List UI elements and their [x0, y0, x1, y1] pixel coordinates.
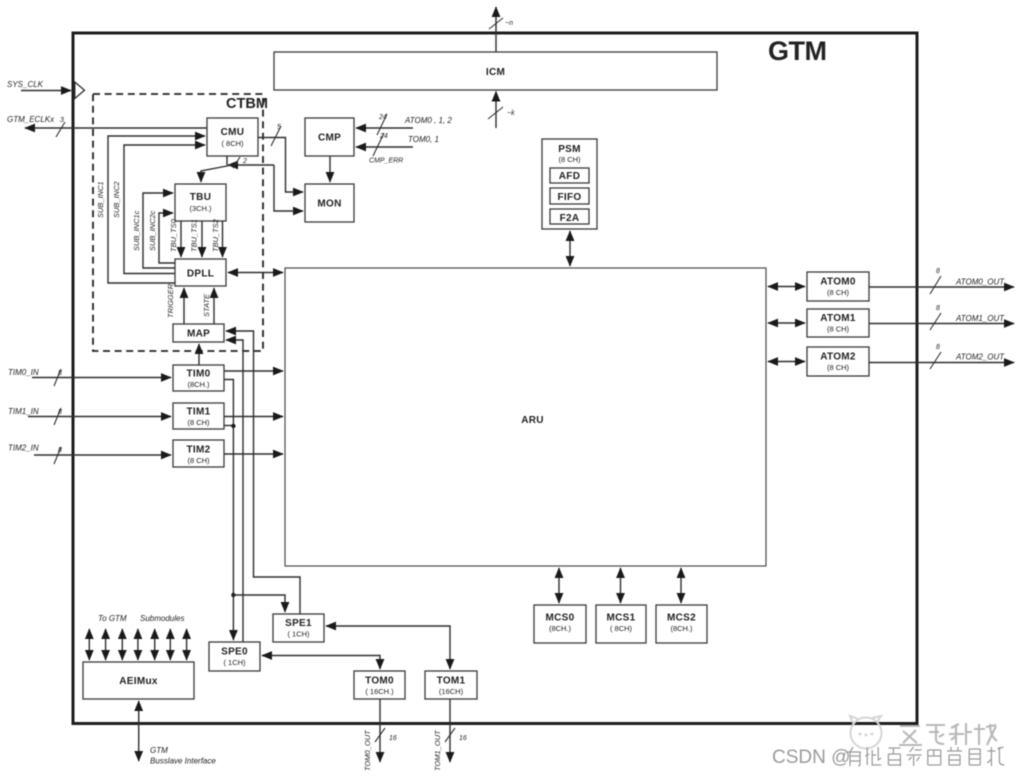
svg-text:(16CH): (16CH): [439, 687, 464, 696]
svg-text:8: 8: [936, 268, 940, 275]
svg-text:SUB_INC1c: SUB_INC1c: [132, 210, 141, 251]
svg-text:MON: MON: [317, 199, 341, 210]
svg-text:SUB_INC2: SUB_INC2: [112, 180, 121, 218]
svg-text:TIM1_IN: TIM1_IN: [8, 407, 39, 416]
svg-text:16: 16: [459, 735, 467, 742]
svg-text:(3CH.): (3CH.): [189, 204, 212, 213]
svg-text:TIM2_IN: TIM2_IN: [8, 444, 39, 453]
svg-text:SYS_CLK: SYS_CLK: [7, 80, 44, 89]
svg-text:ATOM2: ATOM2: [820, 352, 856, 363]
svg-text:ATOM0_OUT: ATOM0_OUT: [955, 278, 1005, 287]
svg-text:ICM: ICM: [486, 67, 505, 78]
svg-text:CTBM: CTBM: [226, 96, 268, 112]
svg-text:( 8CH): ( 8CH): [221, 139, 244, 148]
svg-text:MCS2: MCS2: [667, 613, 696, 624]
svg-text:ATOM0 , 1, 2: ATOM0 , 1, 2: [404, 116, 452, 125]
svg-text:F2A: F2A: [560, 213, 580, 224]
svg-text:FIFO: FIFO: [558, 192, 582, 203]
svg-text:GTM: GTM: [768, 36, 827, 66]
svg-text:TIM1: TIM1: [187, 407, 211, 418]
svg-text:( 16CH.): ( 16CH.): [365, 687, 394, 696]
svg-text:CSDN @: CSDN @: [772, 747, 850, 768]
svg-text:2: 2: [242, 158, 247, 165]
svg-text:8: 8: [58, 370, 62, 377]
svg-text:MCS0: MCS0: [546, 613, 575, 624]
svg-text:CMP_ERR: CMP_ERR: [369, 158, 403, 165]
svg-text:Busslave Interface: Busslave Interface: [150, 757, 216, 766]
svg-text:GTM: GTM: [150, 746, 168, 755]
svg-text:(8 CH): (8 CH): [187, 418, 210, 427]
svg-text:(8 CH): (8 CH): [558, 155, 581, 164]
svg-text:STATE: STATE: [202, 293, 211, 317]
svg-text:MCS1: MCS1: [607, 613, 636, 624]
svg-text:TOM0, 1: TOM0, 1: [408, 135, 439, 144]
svg-text:DPLL: DPLL: [187, 269, 214, 280]
svg-text:TIM0_IN: TIM0_IN: [8, 368, 39, 377]
svg-text:ATOM0: ATOM0: [820, 277, 856, 288]
svg-text:8: 8: [936, 344, 940, 351]
svg-text:SUB_INC2c: SUB_INC2c: [148, 210, 157, 251]
svg-text:~k: ~k: [507, 110, 515, 117]
svg-text:16: 16: [389, 735, 397, 742]
svg-text:To GTM: To GTM: [98, 614, 127, 623]
svg-text:(8CH.): (8CH.): [670, 624, 693, 633]
svg-text:TOM1: TOM1: [437, 676, 466, 687]
svg-text:CMU: CMU: [221, 127, 245, 138]
svg-text:TBU: TBU: [190, 192, 211, 203]
svg-text:TBU_TS1: TBU_TS1: [190, 219, 199, 252]
svg-text:( 8CH): ( 8CH): [610, 624, 633, 633]
svg-text:AEIMux: AEIMux: [119, 676, 158, 687]
svg-text:AFD: AFD: [559, 171, 580, 182]
svg-text:TIM2: TIM2: [187, 445, 211, 456]
svg-text:(8 CH): (8 CH): [827, 363, 850, 372]
svg-text:SPE1: SPE1: [285, 618, 312, 629]
svg-text:TOM0_OUT: TOM0_OUT: [363, 729, 372, 771]
svg-text:8: 8: [58, 409, 62, 416]
svg-text:TRIGGER: TRIGGER: [166, 283, 175, 318]
svg-text:ATOM1: ATOM1: [820, 313, 856, 324]
svg-text:Submodules: Submodules: [140, 614, 184, 623]
svg-text:TBU_TS2: TBU_TS2: [211, 218, 220, 252]
svg-text:SUB_INC1: SUB_INC1: [96, 181, 105, 218]
svg-text:(8CH.): (8CH.): [187, 380, 210, 389]
svg-text:8: 8: [936, 305, 940, 312]
svg-text:TOM0: TOM0: [365, 676, 394, 687]
svg-text:TIM0: TIM0: [187, 369, 211, 380]
svg-text:~n: ~n: [505, 20, 513, 27]
svg-text:TOM1_OUT: TOM1_OUT: [433, 729, 442, 771]
svg-text:ARU: ARU: [521, 415, 544, 426]
svg-text:TBU_TS0: TBU_TS0: [169, 218, 178, 252]
svg-text:24: 24: [378, 114, 387, 121]
svg-text:(8 CH): (8 CH): [827, 325, 850, 334]
svg-text:PSM: PSM: [558, 144, 581, 155]
svg-text:(8 CH): (8 CH): [827, 288, 850, 297]
svg-text:(8CH.): (8CH.): [549, 624, 572, 633]
svg-text:3: 3: [60, 117, 64, 124]
svg-text:(8 CH): (8 CH): [187, 456, 210, 465]
svg-text:SPE0: SPE0: [221, 647, 248, 658]
svg-text:ATOM2_OUT: ATOM2_OUT: [955, 353, 1005, 362]
svg-text:CMP: CMP: [318, 133, 341, 144]
svg-text:24: 24: [379, 133, 388, 140]
svg-text:8: 8: [58, 447, 62, 454]
svg-text:ATOM1_OUT: ATOM1_OUT: [955, 314, 1005, 323]
svg-text:GTM_ECLKx: GTM_ECLKx: [7, 115, 55, 124]
svg-text:5: 5: [277, 124, 281, 131]
svg-text:( 1CH): ( 1CH): [287, 630, 310, 639]
svg-text:MAP: MAP: [187, 329, 210, 340]
svg-text:( 1CH): ( 1CH): [223, 658, 246, 667]
